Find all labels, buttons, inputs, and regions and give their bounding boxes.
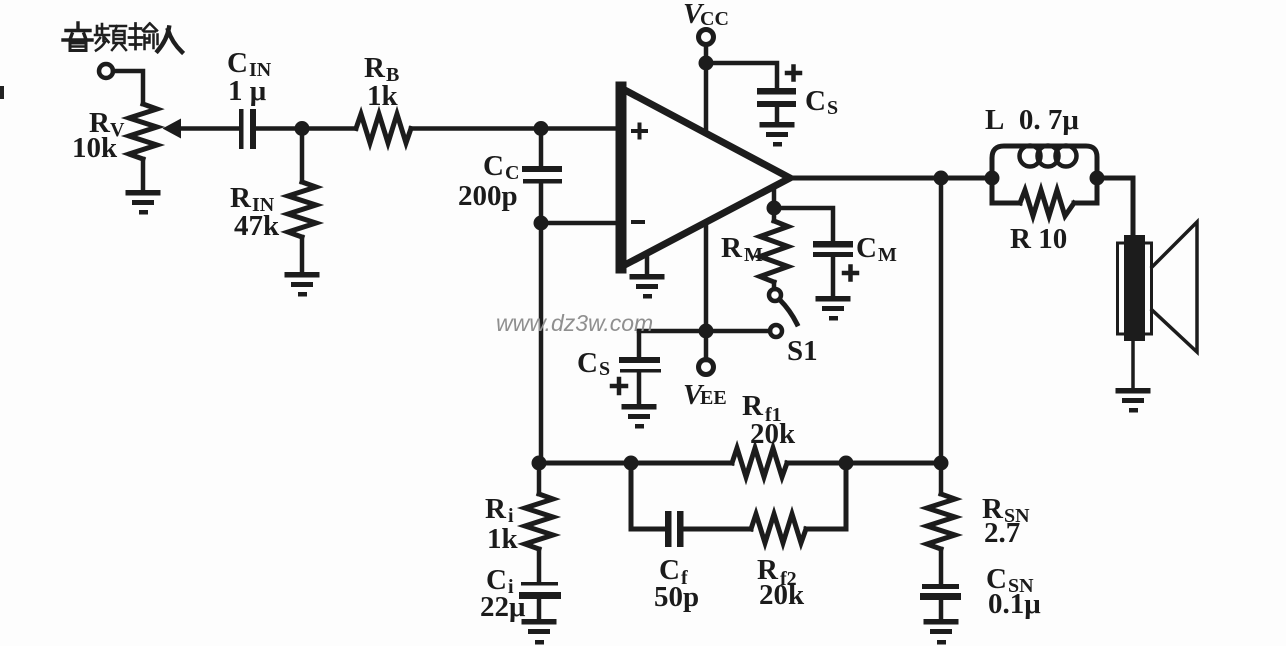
svg-text:S: S bbox=[599, 358, 610, 380]
svg-text:S: S bbox=[827, 97, 838, 119]
label VEE bbox=[683, 379, 727, 411]
inductor coil loops bbox=[1020, 146, 1077, 167]
svg-text:20k: 20k bbox=[750, 418, 796, 450]
svg-text:R: R bbox=[721, 232, 743, 264]
node (RM top) bbox=[767, 201, 782, 216]
resistor RSN 2.7 bbox=[927, 494, 955, 549]
label 音频输入 (audio input), hand-drawn strokes bbox=[63, 23, 182, 52]
capacitor CS (top) bbox=[757, 88, 796, 107]
svg-text:EE: EE bbox=[700, 387, 727, 409]
wire bbox=[541, 221, 621, 226]
node (Ri top) bbox=[532, 456, 547, 471]
input terminal bbox=[99, 64, 113, 78]
node (VCC junction) bbox=[699, 56, 714, 71]
wire bbox=[706, 63, 777, 88]
label RV 10k bbox=[72, 107, 125, 164]
wire bbox=[300, 237, 305, 272]
resistor R 10 bbox=[1020, 190, 1074, 216]
resistor R 10 branch bbox=[992, 178, 1097, 203]
svg-text:C: C bbox=[805, 85, 826, 117]
resistor Rf1 bbox=[732, 448, 787, 477]
terminal VEE bbox=[699, 360, 714, 375]
wire bbox=[256, 126, 356, 131]
op-amp U1 bbox=[621, 87, 790, 268]
wire bbox=[141, 159, 146, 190]
wire bbox=[1097, 178, 1133, 236]
svg-text:CC: CC bbox=[700, 8, 729, 30]
label CS bbox=[805, 85, 838, 119]
label Rf1 20k bbox=[742, 390, 796, 450]
wire bbox=[411, 126, 621, 131]
svg-text:1k: 1k bbox=[367, 80, 399, 112]
capacitor CM bbox=[813, 241, 853, 257]
terminal VCC bbox=[699, 30, 714, 45]
inductor L 0.7u branch bbox=[992, 146, 1097, 178]
capacitor CC 200p bbox=[522, 166, 562, 184]
wire bbox=[539, 135, 544, 166]
svg-text:C: C bbox=[577, 347, 598, 379]
label L 0.7u bbox=[985, 104, 1079, 136]
svg-text:M: M bbox=[744, 244, 763, 266]
capacitor CS (bottom) bbox=[619, 357, 661, 373]
node (feedback tap) bbox=[934, 171, 949, 186]
node (op-amp - input) bbox=[534, 216, 549, 231]
svg-text:S1: S1 bbox=[787, 335, 818, 367]
wire bbox=[637, 372, 642, 404]
resistor RB bbox=[356, 114, 411, 143]
label RB 1k bbox=[364, 52, 399, 112]
wire bbox=[704, 45, 709, 131]
wire bbox=[180, 126, 239, 131]
svg-text:1 μ: 1 μ bbox=[228, 75, 267, 107]
ground (Ci) bbox=[522, 619, 557, 645]
wire bbox=[113, 71, 143, 104]
svg-text:C: C bbox=[483, 150, 504, 182]
label Rf2 20k bbox=[757, 554, 805, 611]
capacitor Cf 50p bbox=[665, 511, 684, 547]
wire (to CM) bbox=[774, 208, 833, 241]
label Cf 50p bbox=[654, 554, 699, 613]
wire bbox=[637, 331, 642, 356]
plus mark bbox=[787, 67, 800, 80]
label CIN 1u bbox=[227, 47, 272, 107]
svg-text:C: C bbox=[856, 232, 877, 264]
wire (output) bbox=[790, 176, 992, 181]
wire bbox=[939, 549, 944, 584]
capacitor CSN 0.1u bbox=[920, 584, 961, 600]
watermark bbox=[496, 310, 653, 336]
ground (op-amp) bbox=[645, 253, 650, 274]
wire bbox=[939, 600, 944, 619]
switch S1 contact (upper) bbox=[769, 289, 781, 301]
svg-text:R 10: R 10 bbox=[1010, 223, 1067, 255]
wire bbox=[537, 549, 542, 582]
node (op-amp + input) bbox=[534, 121, 549, 136]
resistor Ri 1k bbox=[525, 494, 553, 549]
label S1 bbox=[787, 335, 818, 367]
ground (speaker) bbox=[1116, 388, 1151, 413]
svg-text:L 0. 7μ: L 0. 7μ bbox=[985, 104, 1079, 136]
wire bbox=[539, 230, 544, 463]
resistor RIN bbox=[288, 182, 316, 237]
label VCC bbox=[683, 0, 729, 30]
wire bbox=[1131, 341, 1135, 388]
wire bbox=[537, 470, 542, 494]
label Ri 1k bbox=[485, 493, 519, 555]
potentiometer RV bbox=[129, 104, 157, 159]
resistor RM bbox=[760, 221, 788, 282]
wire bbox=[775, 107, 780, 122]
switch S1 blade bbox=[780, 300, 797, 324]
svg-text:47k: 47k bbox=[234, 210, 280, 242]
wire bbox=[772, 282, 777, 289]
svg-text:M: M bbox=[878, 244, 897, 266]
wire VEE line bbox=[704, 222, 709, 360]
node (Rf2 right) bbox=[839, 456, 854, 471]
label RIN 47k bbox=[230, 182, 280, 242]
label RM bbox=[721, 232, 763, 266]
wire (to S1) bbox=[639, 329, 770, 334]
scan artifact left edge bbox=[0, 86, 4, 99]
svg-text:20k: 20k bbox=[759, 579, 805, 611]
ground (RV) bbox=[126, 190, 161, 215]
svg-text:50p: 50p bbox=[654, 581, 699, 613]
ground (CS bottom) bbox=[622, 404, 657, 429]
label CC 200p bbox=[458, 150, 519, 212]
wiper arrow bbox=[163, 119, 182, 139]
plus mark bbox=[844, 267, 857, 280]
node (L left) bbox=[985, 171, 1000, 186]
svg-text:0.1μ: 0.1μ bbox=[988, 588, 1041, 620]
wire bbox=[831, 257, 836, 296]
wire bbox=[300, 135, 305, 182]
capacitor Ci 22u bbox=[519, 582, 561, 599]
svg-text:R: R bbox=[485, 493, 507, 525]
plus mark bbox=[612, 379, 626, 393]
svg-text:22μ: 22μ bbox=[480, 591, 526, 623]
switch S1 contact (lower) bbox=[770, 325, 782, 337]
svg-text:1k: 1k bbox=[487, 523, 519, 555]
node (RSN top) bbox=[934, 456, 949, 471]
resistor Rf2 bbox=[751, 514, 806, 543]
ground (CS top) bbox=[760, 122, 795, 147]
node (Cf branch) bbox=[624, 456, 639, 471]
node (R right) bbox=[1090, 171, 1105, 186]
wire (feedback row) bbox=[539, 461, 941, 466]
svg-text:10k: 10k bbox=[72, 132, 118, 164]
label CM bbox=[856, 232, 897, 266]
label RSN 2.7 bbox=[982, 493, 1030, 549]
node (input junction) bbox=[295, 121, 310, 136]
wire (Cf/Rf2 loop) bbox=[631, 470, 846, 529]
capacitor CIN 1u bbox=[239, 109, 256, 149]
svg-text:200p: 200p bbox=[458, 180, 518, 212]
label CS bbox=[577, 347, 610, 380]
ground (CSN) bbox=[924, 619, 959, 645]
ground (RIN) bbox=[285, 272, 320, 297]
svg-text:www.dz3w.com: www.dz3w.com bbox=[496, 310, 653, 336]
wire bbox=[939, 185, 944, 463]
label R 10 bbox=[1010, 223, 1067, 255]
svg-text:2.7: 2.7 bbox=[984, 517, 1020, 549]
wire bbox=[537, 598, 542, 619]
label Ci 22u bbox=[480, 564, 526, 623]
wire (RM tap) bbox=[772, 186, 777, 221]
label CSN 0.1u bbox=[986, 563, 1041, 620]
node (VEE junction) bbox=[699, 324, 714, 339]
wire bbox=[939, 470, 944, 494]
wire bbox=[539, 183, 544, 223]
ground (CM) bbox=[816, 296, 851, 321]
speaker bbox=[1118, 222, 1198, 352]
